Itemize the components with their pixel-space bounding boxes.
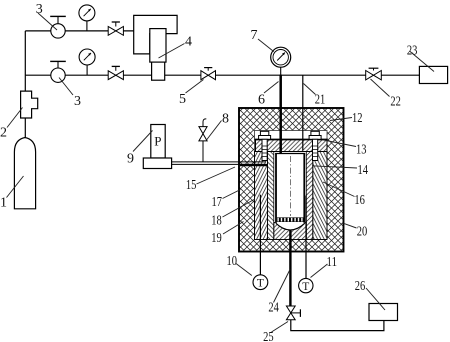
svg-text:15: 15 — [186, 178, 197, 193]
inner sample tube 15/19 — [275, 154, 305, 223]
tube centreline — [289, 156, 291, 216]
leader 25 — [272, 322, 289, 333]
pressure regulator 2 — [21, 91, 38, 118]
vessel bottom plug — [274, 222, 307, 240]
svg-text:20: 20 — [357, 225, 368, 240]
svg-text:2: 2 — [0, 126, 7, 141]
leader 1 — [7, 176, 24, 198]
svg-text:8: 8 — [222, 112, 229, 127]
furnace body 12 (cross-hatched insulation box) — [239, 108, 344, 252]
svg-text:P: P — [154, 134, 161, 149]
lid / cover plate 14 (hatched band) — [255, 140, 328, 152]
thermometer 10 — [253, 275, 268, 290]
wire row2 — [25, 74, 419, 76]
sieve plate at tube bottom — [277, 218, 303, 222]
svg-text:18: 18 — [211, 214, 222, 229]
globe valve 3 (row2) — [50, 61, 66, 82]
svg-text:21: 21 — [315, 93, 326, 108]
leader 15 — [197, 167, 236, 184]
svg-text:4: 4 — [185, 35, 192, 50]
valve 22 — [366, 68, 382, 80]
leader 17 — [223, 190, 241, 199]
svg-text:7: 7 — [251, 28, 258, 43]
leader 2 — [7, 108, 23, 128]
leader 4 — [159, 44, 185, 59]
svg-text:22: 22 — [390, 95, 401, 110]
leader 6 — [264, 82, 279, 94]
svg-text:T: T — [302, 281, 309, 293]
collector box 23 — [419, 66, 447, 83]
thermometer 11 — [299, 278, 313, 293]
svg-text:16: 16 — [354, 193, 365, 208]
leader 13 — [324, 140, 357, 147]
leader 21 — [304, 84, 316, 95]
leader 19 — [223, 222, 244, 235]
leader 5 — [186, 80, 204, 94]
needle valve (row1) — [108, 22, 123, 35]
leader 3 row2 — [59, 78, 73, 96]
precision gauge 7 — [271, 47, 291, 74]
leader 20 — [344, 223, 357, 228]
svg-text:24: 24 — [268, 301, 279, 316]
valve 5 — [201, 68, 216, 80]
leader 22 — [371, 79, 390, 97]
gas cylinder 1 — [14, 138, 35, 209]
leader 8 — [207, 121, 222, 141]
svg-text:14: 14 — [358, 163, 369, 178]
injection tube 15 (double line) — [172, 162, 268, 165]
svg-text:T: T — [257, 278, 264, 290]
leader 16 — [323, 182, 355, 197]
svg-text:23: 23 — [407, 44, 418, 59]
drain valve 24 — [286, 306, 300, 320]
vessel left wall inner layer 18 — [268, 152, 274, 240]
booster pump 4 — [134, 15, 177, 80]
vessel left wall outer layer 17 — [255, 152, 268, 240]
svg-text:25: 25 — [263, 330, 274, 342]
wire left riser — [24, 31, 26, 91]
bolt 13 right — [309, 131, 321, 160]
vessel right wall outer layer 16 — [313, 152, 327, 240]
vent valve 8 — [199, 119, 207, 162]
svg-text:19: 19 — [211, 231, 222, 246]
leader 12 — [330, 118, 352, 121]
wire regulator to cylinder — [24, 118, 26, 139]
svg-text:3: 3 — [36, 2, 43, 17]
svg-text:9: 9 — [127, 152, 134, 167]
pressure gauge (row1) — [79, 5, 95, 31]
svg-text:6: 6 — [258, 93, 265, 108]
needle valve (row2) — [108, 66, 123, 79]
drain pipe (bold) — [289, 230, 291, 306]
leader 24 — [274, 270, 291, 303]
leader 3 row1 — [38, 13, 57, 30]
leader 7 — [258, 39, 274, 52]
svg-text:1: 1 — [0, 196, 7, 211]
leader 23 — [410, 51, 435, 72]
svg-text:11: 11 — [327, 255, 338, 270]
inlet tube 6 (bold) — [279, 75, 282, 154]
bolt 13 left — [259, 131, 271, 160]
svg-text:26: 26 — [355, 279, 366, 294]
svg-text:17: 17 — [211, 195, 222, 210]
pressure gauge (row2) — [79, 49, 95, 75]
leader 18 — [223, 199, 256, 217]
leader 9 — [133, 131, 153, 152]
leader 11 — [311, 264, 328, 278]
leader 14 — [312, 166, 357, 168]
leader 26 — [366, 288, 385, 310]
vessel right wall inner layer — [306, 152, 313, 240]
svg-text:5: 5 — [179, 92, 186, 107]
svg-text:12: 12 — [352, 111, 363, 126]
thermocouple line left — [259, 195, 261, 275]
pressure transducer 9 — [143, 125, 171, 169]
svg-text:3: 3 — [74, 94, 81, 109]
thermocouple line right — [305, 196, 307, 279]
globe valve 3 (row1) — [50, 16, 66, 38]
svg-text:13: 13 — [356, 143, 367, 158]
line 21 into lid — [302, 75, 304, 150]
wire row1 — [25, 30, 133, 32]
svg-text:10: 10 — [227, 254, 238, 269]
wire to collector 26 — [291, 320, 384, 331]
leader 10 — [236, 264, 252, 276]
collector box 26 — [369, 304, 398, 321]
